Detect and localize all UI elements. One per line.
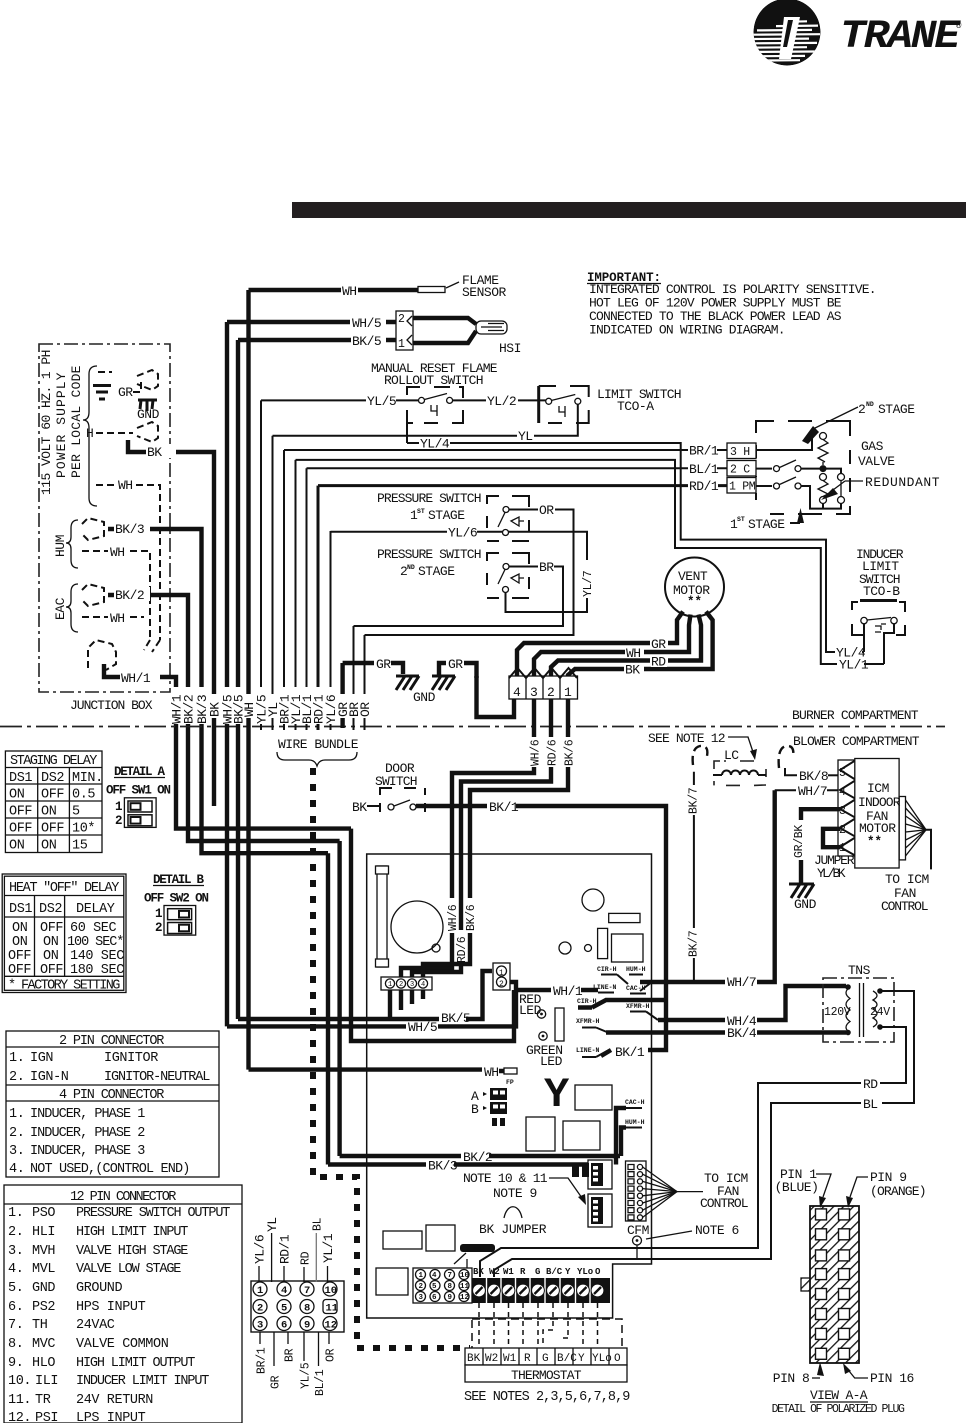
svg-text:**: ** [867,835,882,849]
svg-text:W1: W1 [503,1353,517,1365]
svg-text:PIN 16: PIN 16 [870,1371,914,1386]
svg-text:WH/6: WH/6 [530,739,543,766]
svg-text:BK/7: BK/7 [688,931,701,957]
svg-text:BLOWER COMPARTMENT: BLOWER COMPARTMENT [793,734,920,749]
svg-text:4 PIN CONNECTOR: 4 PIN CONNECTOR [59,1088,164,1103]
svg-text:6: 6 [432,1294,437,1302]
svg-text:140 SEC: 140 SEC [70,949,124,964]
svg-text:4: 4 [513,685,521,700]
svg-text:HIGH LIMIT OUTPUT: HIGH LIMIT OUTPUT [76,1356,195,1371]
svg-text:HSI: HSI [499,341,521,356]
svg-text:24V: 24V [870,1006,890,1019]
svg-text:MVL: MVL [32,1262,55,1277]
svg-text:5: 5 [281,1303,287,1315]
svg-text:3 H: 3 H [730,446,750,459]
svg-text:HLO: HLO [32,1356,55,1371]
svg-text:10: 10 [325,1285,338,1297]
svg-text:WH/7: WH/7 [798,784,827,799]
svg-text:8: 8 [448,1283,453,1291]
svg-text:INDICATED ON WIRING DIAGRAM.: INDICATED ON WIRING DIAGRAM. [589,323,785,338]
svg-text:YLo: YLo [592,1353,612,1365]
svg-text:OFF: OFF [8,949,31,964]
svg-text:JUNCTION BOX: JUNCTION BOX [70,698,153,713]
svg-text:BK: BK [473,1267,484,1277]
svg-text:11: 11 [326,1303,339,1315]
svg-text:WH/5: WH/5 [352,316,381,331]
svg-text:2 C: 2 C [730,464,750,477]
svg-text:LPS INPUT: LPS INPUT [76,1411,146,1423]
svg-text:OFF SW2 ON: OFF SW2 ON [144,892,209,906]
svg-text:12.: 12. [8,1411,31,1423]
svg-text:YL/BK: YL/BK [817,866,846,881]
svg-text:Y: Y [565,1267,571,1277]
svg-text:10.: 10. [8,1374,31,1389]
svg-text:INDUCER, PHASE 3: INDUCER, PHASE 3 [30,1144,145,1159]
svg-text:BK: BK [625,663,640,678]
svg-text:BL/1: BL/1 [314,1369,327,1396]
svg-text:VALVE: VALVE [858,454,895,469]
svg-text:YL/5: YL/5 [300,1362,313,1389]
svg-text:1: 1 [115,800,123,814]
svg-text:VENT: VENT [678,569,708,584]
svg-text:60 SEC: 60 SEC [70,921,117,936]
svg-text:1: 1 [155,907,163,921]
svg-text:3.: 3. [9,1144,24,1159]
svg-text:7: 7 [304,1285,310,1297]
svg-text:WH/6: WH/6 [447,904,460,931]
svg-text:2.: 2. [9,1070,24,1085]
svg-text:WH/7: WH/7 [727,975,756,990]
svg-text:CONTROL: CONTROL [700,1196,748,1211]
svg-text:INDOOR: INDOOR [858,795,901,810]
svg-text:4: 4 [421,981,425,989]
svg-text:15: 15 [72,839,88,854]
svg-text:PER LOCAL CODE: PER LOCAL CODE [69,365,84,478]
svg-text:PRESSURE SWITCH OUTPUT: PRESSURE SWITCH OUTPUT [76,1206,230,1221]
svg-text:1: 1 [419,1272,424,1280]
svg-text:HEAT "OFF" DELAY: HEAT "OFF" DELAY [9,881,119,896]
svg-text:CONTROL: CONTROL [881,899,928,914]
svg-text:INDUCER, PHASE 1: INDUCER, PHASE 1 [30,1107,145,1122]
svg-text:5 AMP: 5 AMP [466,1246,484,1253]
svg-text:R: R [520,1267,526,1277]
svg-text:2: 2 [547,685,554,700]
svg-text:RD: RD [300,1251,313,1265]
svg-text:BK/3: BK/3 [115,522,144,537]
svg-text:PIN 8: PIN 8 [773,1371,810,1386]
svg-text:YL/2: YL/2 [487,394,516,409]
svg-text:OFF: OFF [41,822,64,837]
svg-text:TO ICM: TO ICM [885,872,929,887]
svg-text:3: 3 [839,805,846,818]
svg-text:1 PM: 1 PM [729,481,756,494]
svg-text:BR/1: BR/1 [256,1347,269,1374]
svg-text:BK/5: BK/5 [441,1011,470,1026]
svg-text:TRANE: TRANE [840,15,961,60]
svg-text:W1: W1 [503,1267,514,1277]
svg-text:G: G [542,1353,549,1365]
svg-text:DS2: DS2 [41,771,64,786]
svg-text:HPS INPUT: HPS INPUT [76,1300,146,1315]
svg-text:YL/6: YL/6 [448,525,477,540]
svg-text:3: 3 [419,1294,424,1302]
svg-text:BK/1: BK/1 [489,800,519,815]
svg-text:ON: ON [41,839,57,854]
svg-text:10*: 10* [72,822,95,837]
svg-text:B/C: B/C [546,1267,563,1277]
svg-text:OR: OR [539,503,554,518]
svg-text:PRESSURE SWITCH: PRESSURE SWITCH [377,491,481,506]
svg-text:LC: LC [724,748,739,763]
svg-text:WH: WH [110,611,125,626]
svg-text:5: 5 [839,767,846,780]
svg-text:1.: 1. [9,1107,24,1122]
svg-text:ICM: ICM [867,781,889,796]
svg-text:THERMOSTAT: THERMOSTAT [511,1368,582,1383]
svg-text:WH/1: WH/1 [553,984,583,999]
svg-text:2: 2 [257,1303,263,1315]
svg-text:2 PIN CONNECTOR: 2 PIN CONNECTOR [59,1034,164,1049]
svg-text:4.: 4. [9,1162,24,1177]
svg-text:ROLLOUT SWITCH: ROLLOUT SWITCH [384,373,483,388]
svg-text:ON: ON [12,921,28,936]
svg-text:OR: OR [358,702,373,717]
svg-text:GND: GND [794,897,817,912]
svg-text:NOT USED,(CONTROL END): NOT USED,(CONTROL END) [30,1162,190,1177]
svg-text:STAGE: STAGE [428,508,465,523]
svg-text:7: 7 [448,1272,453,1280]
svg-text:XFMR-H: XFMR-H [576,1018,600,1025]
svg-text:DS1: DS1 [9,771,32,786]
svg-text:2: 2 [398,313,405,326]
svg-text:12: 12 [460,1294,470,1302]
svg-text:YL/5: YL/5 [367,394,396,409]
svg-text:6: 6 [281,1320,287,1332]
svg-text:O: O [595,1267,601,1277]
svg-text:ND: ND [866,401,874,408]
svg-text:(BLUE): (BLUE) [775,1180,819,1195]
svg-text:DS1: DS1 [9,902,32,917]
svg-text:B/C: B/C [557,1353,577,1365]
svg-text:NOTE 10 & 11: NOTE 10 & 11 [463,1171,548,1186]
svg-text:* FACTORY SETTING: * FACTORY SETTING [8,979,120,994]
svg-text:WH/5: WH/5 [408,1020,437,1035]
svg-text:OFF: OFF [40,963,63,978]
svg-text:YL/6: YL/6 [253,1235,268,1264]
svg-text:HUM: HUM [53,535,68,557]
svg-text:YL: YL [265,1217,280,1232]
svg-text:YL/1: YL/1 [321,1233,336,1263]
svg-text:9.: 9. [8,1356,23,1371]
svg-text:2: 2 [858,402,865,417]
svg-text:4: 4 [432,1272,437,1280]
svg-text:BR/1: BR/1 [689,444,719,459]
svg-text:180 SEC: 180 SEC [70,963,124,978]
svg-text:CAC-H: CAC-H [625,1099,645,1106]
svg-text:ON: ON [12,935,28,950]
svg-text:GR: GR [651,637,666,652]
svg-text:R: R [524,1353,531,1365]
svg-text:SWITCH: SWITCH [375,774,417,789]
svg-text:BK/2: BK/2 [115,588,144,603]
svg-text:CIR-H: CIR-H [577,998,597,1005]
svg-text:ST: ST [737,516,745,523]
svg-text:GR: GR [448,657,463,672]
svg-text:12 PIN CONNECTOR: 12 PIN CONNECTOR [70,1190,176,1205]
svg-text:ON: ON [43,935,59,950]
svg-text:IGN-N: IGN-N [30,1070,69,1085]
svg-text:BL/1: BL/1 [689,462,719,477]
svg-text:0.5: 0.5 [72,788,95,803]
svg-text:BR: BR [539,560,554,575]
svg-text:BK JUMPER: BK JUMPER [479,1222,547,1237]
svg-text:DELAY: DELAY [76,902,115,917]
svg-text:115 VOLT 60 HZ. 1 PH: 115 VOLT 60 HZ. 1 PH [39,350,54,495]
svg-text:11: 11 [460,1283,470,1291]
svg-text:BK: BK [467,1353,481,1365]
svg-text:10: 10 [460,1272,470,1280]
svg-text:7.: 7. [8,1318,23,1333]
svg-text:PSO: PSO [32,1206,55,1221]
svg-text:BK: BK [352,800,367,815]
svg-text:FP: FP [506,1079,514,1086]
svg-text:BK/6: BK/6 [465,904,478,931]
svg-text:DETAIL OF POLARIZED PLUG: DETAIL OF POLARIZED PLUG [772,1403,905,1416]
svg-text:1: 1 [564,685,572,700]
svg-text:DS2: DS2 [39,902,62,917]
svg-text:2.: 2. [8,1225,23,1240]
svg-text:100 SEC*: 100 SEC* [67,935,124,950]
svg-text:BK/1: BK/1 [615,1045,645,1060]
svg-text:BK/5: BK/5 [352,334,381,349]
svg-text:3.: 3. [8,1244,23,1259]
svg-text:VALVE HIGH STAGE: VALVE HIGH STAGE [76,1244,188,1259]
svg-text:WH: WH [626,646,641,661]
svg-text:9: 9 [448,1294,453,1302]
svg-text:5: 5 [432,1283,437,1291]
svg-text:BK/4: BK/4 [727,1026,757,1041]
svg-text:LINE-N: LINE-N [576,1047,600,1054]
svg-text:6.: 6. [8,1300,23,1315]
svg-text:B: B [471,1102,479,1117]
svg-text:MVH: MVH [32,1244,55,1259]
svg-text:YLo: YLo [577,1267,593,1277]
svg-text:SEE NOTES 2,3,5,6,7,8,9: SEE NOTES 2,3,5,6,7,8,9 [464,1390,630,1405]
svg-text:GROUND: GROUND [76,1281,123,1296]
svg-text:GR/BK: GR/BK [793,825,806,858]
svg-text:8: 8 [304,1303,310,1315]
svg-text:TNS: TNS [848,963,871,978]
svg-text:TCO-A: TCO-A [617,399,654,414]
svg-text:RD/1: RD/1 [689,479,719,494]
svg-text:3: 3 [410,981,414,989]
svg-text:MVC: MVC [32,1337,55,1352]
svg-text:SENSOR: SENSOR [462,285,507,300]
svg-text:5.: 5. [8,1281,23,1296]
svg-text:BK: BK [147,445,162,460]
svg-text:HUM-H: HUM-H [626,966,646,973]
svg-text:IGN: IGN [30,1051,53,1066]
svg-text:H: H [86,426,93,441]
svg-text:SEE NOTE 12: SEE NOTE 12 [648,731,725,746]
svg-text:INDUCER LIMIT INPUT: INDUCER LIMIT INPUT [76,1374,209,1389]
svg-text:RD/1: RD/1 [278,1234,293,1264]
svg-text:STAGE: STAGE [418,564,455,579]
svg-text:2: 2 [115,814,123,828]
svg-text:BK/3: BK/3 [428,1159,457,1174]
svg-text:2: 2 [155,921,163,935]
svg-text:BK/6: BK/6 [564,739,577,766]
svg-text:GND: GND [32,1281,55,1296]
svg-text:RD: RD [651,655,666,670]
svg-text:WH: WH [118,478,133,493]
svg-text:MOTOR: MOTOR [859,821,896,836]
svg-text:4: 4 [281,1285,287,1297]
svg-text:G: G [535,1267,540,1277]
svg-text:BK/8: BK/8 [799,769,828,784]
svg-text:POWER SUPPLY: POWER SUPPLY [54,372,69,478]
svg-text:OFF: OFF [9,805,32,820]
svg-text:XFMR-H: XFMR-H [626,1003,650,1010]
svg-text:RD/6: RD/6 [456,936,469,963]
svg-text:OFF SW1 ON: OFF SW1 ON [106,784,171,798]
svg-text:TCO-B: TCO-B [863,584,900,599]
svg-text:2: 2 [499,980,504,989]
svg-text:PSI: PSI [35,1411,58,1423]
svg-text:3: 3 [530,685,537,700]
svg-text:GR: GR [270,1375,283,1389]
svg-text:OFF: OFF [41,788,64,803]
svg-text:OFF: OFF [8,963,31,978]
svg-text:OFF: OFF [9,822,32,837]
svg-text:TH: TH [32,1318,48,1333]
svg-text:BL: BL [312,1217,325,1231]
svg-text:1: 1 [388,981,392,989]
svg-text:CIR-H: CIR-H [597,966,617,973]
svg-text:LED: LED [540,1054,563,1069]
svg-text:BK/7: BK/7 [688,788,701,814]
svg-text:GAS: GAS [861,439,884,454]
svg-text:1.: 1. [9,1051,24,1066]
svg-text:WIRE BUNDLE: WIRE BUNDLE [278,737,359,752]
svg-text:O: O [614,1353,621,1365]
svg-text:HIGH LIMIT INPUT: HIGH LIMIT INPUT [76,1225,188,1240]
svg-text:RD: RD [863,1077,878,1092]
svg-text:Y: Y [578,1353,585,1365]
svg-text:24V RETURN: 24V RETURN [76,1393,153,1408]
svg-text:1: 1 [499,969,504,978]
svg-text:PIN 9: PIN 9 [870,1170,907,1185]
svg-text:STAGE: STAGE [878,402,915,417]
svg-text:(ORANGE): (ORANGE) [870,1184,926,1199]
svg-text:GND: GND [137,407,160,422]
svg-text:ON: ON [41,805,57,820]
svg-text:IGNITOR-NEUTRAL: IGNITOR-NEUTRAL [104,1070,210,1085]
svg-text:Y: Y [544,1071,570,1119]
svg-text:STAGING DELAY: STAGING DELAY [10,754,97,769]
svg-text:BR: BR [284,1348,297,1362]
svg-text:VIEW A-A: VIEW A-A [810,1388,868,1403]
svg-text:YL/7: YL/7 [582,571,595,597]
svg-text:ON: ON [9,839,25,854]
svg-text:12: 12 [325,1320,338,1332]
svg-text:W2: W2 [485,1353,498,1365]
svg-text:ON: ON [43,949,59,964]
svg-text:WH: WH [110,545,125,560]
svg-text:GR: GR [376,657,391,672]
svg-text:MIN.: MIN. [72,771,103,786]
svg-text:EAC: EAC [53,597,68,620]
svg-text:VALVE LOW STAGE: VALVE LOW STAGE [76,1262,181,1277]
svg-text:2: 2 [419,1283,424,1291]
svg-text:1: 1 [257,1285,263,1297]
svg-text:PRESSURE SWITCH: PRESSURE SWITCH [377,547,481,562]
svg-text:WH: WH [342,284,357,299]
svg-text:1: 1 [398,338,405,351]
svg-text:INDUCER, PHASE 2: INDUCER, PHASE 2 [30,1126,145,1141]
svg-text:ST: ST [417,508,425,515]
svg-text:OR: OR [325,1348,338,1362]
svg-text:GR: GR [118,385,133,400]
svg-text:2: 2 [399,981,403,989]
svg-text:4.: 4. [8,1262,23,1277]
svg-text:BL: BL [863,1097,878,1112]
svg-text:PS2: PS2 [32,1300,55,1315]
svg-text:VALVE COMMON: VALVE COMMON [76,1337,169,1352]
svg-text:NOTE 6: NOTE 6 [695,1223,739,1238]
svg-text:REDUNDANT: REDUNDANT [865,475,940,490]
svg-text:WH/1: WH/1 [121,671,151,686]
svg-text:ILI: ILI [35,1374,58,1389]
svg-text:TR: TR [35,1393,51,1408]
svg-text:®: ® [956,21,962,31]
svg-text:5: 5 [72,805,80,820]
svg-text:OFF: OFF [40,921,63,936]
svg-text:HUM-H: HUM-H [625,1119,645,1126]
svg-text:**: ** [687,595,702,609]
svg-text:STAGE: STAGE [748,517,785,532]
svg-text:NOTE 9: NOTE 9 [493,1186,537,1201]
svg-text:ON: ON [9,788,25,803]
svg-text:YL: YL [518,429,533,444]
svg-text:11.: 11. [8,1393,31,1408]
svg-text:RD/6: RD/6 [547,739,560,766]
svg-text:1.: 1. [8,1206,23,1221]
svg-text:WH: WH [484,1065,499,1080]
svg-text:8.: 8. [8,1337,23,1352]
svg-text:2.: 2. [9,1126,24,1141]
svg-text:3: 3 [257,1320,263,1332]
svg-text:24VAC: 24VAC [76,1318,115,1333]
svg-text:IGNITOR: IGNITOR [104,1051,158,1066]
svg-text:GND: GND [413,690,436,705]
svg-text:BURNER COMPARTMENT: BURNER COMPARTMENT [792,708,919,723]
svg-text:ND: ND [407,564,415,571]
svg-text:HLI: HLI [32,1225,55,1240]
svg-text:9: 9 [304,1320,310,1332]
svg-text:4: 4 [839,786,846,799]
